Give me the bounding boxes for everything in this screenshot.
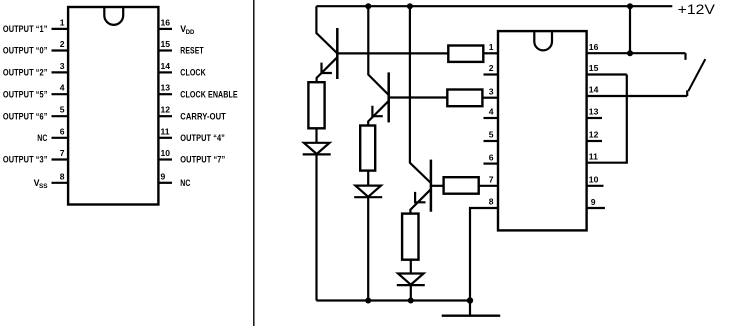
svg-text:16: 16 bbox=[589, 42, 599, 52]
resistor R6 (Q3 emitter) bbox=[402, 214, 418, 260]
IC2 pin 5 stub bbox=[484, 140, 499, 142]
IC2 pin 16 wire to switch bbox=[587, 52, 686, 54]
svg-text:2: 2 bbox=[60, 39, 65, 49]
transistor Q2 base bar bbox=[387, 72, 390, 122]
svg-text:8: 8 bbox=[489, 197, 494, 207]
svg-text:CARRY-OUT: CARRY-OUT bbox=[180, 111, 226, 121]
svg-text:5: 5 bbox=[60, 105, 65, 115]
svg-text:3: 3 bbox=[60, 61, 65, 71]
svg-text:11: 11 bbox=[161, 126, 170, 136]
wire Q3 base to R3 bbox=[431, 185, 444, 187]
IC2 pin 4 stub bbox=[484, 117, 499, 119]
+12V rail bbox=[316, 5, 672, 7]
wire R5 to D2 bbox=[367, 171, 369, 186]
junction dot rail/ground bbox=[467, 297, 473, 303]
transistor Q1 collector wire bbox=[316, 6, 337, 53]
IC2 pin 8 wire to ground bbox=[470, 208, 498, 301]
switch contact pin14 side bbox=[686, 90, 688, 96]
svg-text:12: 12 bbox=[589, 130, 599, 140]
svg-text:12: 12 bbox=[161, 105, 171, 115]
svg-text:16: 16 bbox=[161, 17, 171, 27]
ground symbol bbox=[469, 301, 471, 316]
divider line bbox=[253, 0, 255, 326]
svg-text:9: 9 bbox=[161, 171, 166, 181]
resistor R1 (pin 1) bbox=[448, 46, 483, 62]
IC1 pinout body (left diagram, CD4022) bbox=[68, 7, 158, 205]
resistor R3 (pin 7) bbox=[444, 177, 479, 194]
resistor R4 (Q1 emitter) bbox=[308, 82, 324, 128]
switch contact pin16 side bbox=[684, 53, 686, 60]
transistor Q3 emitter bbox=[410, 189, 431, 213]
transistor Q3 base bar bbox=[430, 160, 433, 212]
IC1 pin 14 stub bbox=[158, 71, 172, 73]
IC1 pin 2 stub bbox=[52, 49, 69, 51]
IC2 pin 2 stub bbox=[484, 73, 499, 75]
svg-text:OUTPUT “3”: OUTPUT “3” bbox=[3, 155, 48, 165]
svg-text:11: 11 bbox=[589, 151, 598, 161]
svg-text:15: 15 bbox=[161, 39, 171, 49]
Q3 emitter arrow bbox=[415, 192, 425, 202]
svg-text:SS: SS bbox=[39, 183, 48, 190]
transistor Q1 emitter bbox=[317, 57, 338, 82]
svg-text:OUTPUT “1”: OUTPUT “1” bbox=[3, 24, 48, 34]
IC1 pin 11 stub bbox=[158, 137, 172, 139]
wire +12V drop to pin 16 bbox=[629, 6, 631, 53]
svg-text:13: 13 bbox=[589, 107, 599, 117]
IC2 body (right circuit) bbox=[498, 31, 587, 230]
svg-text:8: 8 bbox=[60, 171, 65, 181]
diode D1 bbox=[304, 143, 330, 154]
svg-text:OUTPUT “6”: OUTPUT “6” bbox=[3, 111, 48, 121]
svg-text:4: 4 bbox=[489, 107, 494, 117]
IC2 pin 15 wire bbox=[587, 73, 627, 75]
wire R3 to pin 7 bbox=[479, 185, 498, 187]
IC2 pin 14 wire to switch bbox=[587, 95, 688, 97]
svg-text:CLOCK: CLOCK bbox=[180, 68, 206, 78]
IC2 pin 10 stub bbox=[587, 185, 604, 187]
bottom rail bbox=[316, 299, 470, 301]
junction dot pin16 wire bbox=[627, 50, 633, 56]
IC1 pin 7 stub bbox=[52, 158, 69, 160]
svg-text:OUTPUT “4”: OUTPUT “4” bbox=[180, 133, 225, 143]
svg-text:4: 4 bbox=[60, 83, 65, 93]
IC2 pin 12 stub bbox=[587, 140, 602, 142]
svg-text:14: 14 bbox=[589, 85, 599, 95]
junction dot rail/Q3 bbox=[407, 3, 413, 9]
resistor R2 (pin 3) bbox=[447, 90, 482, 107]
Q2 emitter arrow bbox=[372, 106, 382, 116]
transistor Q3 collector wire bbox=[410, 6, 431, 183]
wire Q1 base to R1 bbox=[337, 52, 448, 54]
IC1 pin 4 stub bbox=[52, 93, 69, 95]
svg-text:7: 7 bbox=[489, 175, 494, 185]
IC1 pin 16 stub bbox=[158, 28, 172, 30]
wire D1 to bottom rail bbox=[315, 154, 317, 300]
wire D3 to bottom rail bbox=[410, 285, 412, 300]
svg-text:7: 7 bbox=[60, 148, 65, 158]
IC1 pin 13 stub bbox=[158, 93, 172, 95]
svg-text:+12V: +12V bbox=[678, 1, 716, 17]
resistor R5 (Q2 emitter) bbox=[360, 126, 375, 171]
svg-text:2: 2 bbox=[489, 63, 494, 73]
svg-text:RESET: RESET bbox=[180, 46, 204, 56]
svg-text:DD: DD bbox=[186, 29, 195, 36]
svg-text:OUTPUT “7”: OUTPUT “7” bbox=[180, 155, 225, 165]
IC2 pin 6 stub bbox=[484, 163, 499, 165]
junction dot rail/D3 bbox=[408, 298, 414, 304]
svg-text:6: 6 bbox=[60, 126, 65, 136]
IC1 notch bbox=[104, 8, 123, 25]
svg-text:15: 15 bbox=[589, 63, 599, 73]
IC1 pin 5 stub bbox=[52, 115, 69, 117]
switch arm bbox=[688, 59, 705, 91]
svg-text:OUTPUT “2”: OUTPUT “2” bbox=[3, 68, 48, 78]
svg-text:NC: NC bbox=[37, 133, 48, 143]
svg-text:CLOCK ENABLE: CLOCK ENABLE bbox=[180, 89, 237, 99]
svg-text:6: 6 bbox=[489, 152, 494, 162]
IC1 pin 8 stub bbox=[52, 182, 69, 184]
IC1 pin 1 stub bbox=[52, 28, 69, 30]
junction dot rail/Q2 bbox=[365, 3, 371, 9]
IC1 pin 15 stub bbox=[158, 49, 172, 51]
transistor Q2 emitter bbox=[368, 101, 389, 126]
svg-text:10: 10 bbox=[589, 175, 599, 185]
wire D2 to bottom rail bbox=[367, 197, 369, 300]
svg-text:3: 3 bbox=[489, 86, 494, 96]
IC2 pin 13 stub bbox=[587, 117, 602, 119]
diode D3 bbox=[398, 274, 424, 285]
Q1 emitter arrow bbox=[322, 63, 332, 73]
transistor Q1 base bar bbox=[336, 28, 339, 79]
diode D2 bbox=[355, 186, 381, 197]
wire pin15 to pin11 bracket bbox=[587, 75, 627, 163]
svg-text:1: 1 bbox=[489, 42, 494, 52]
transistor Q2 collector wire bbox=[368, 6, 388, 95]
svg-text:9: 9 bbox=[591, 197, 596, 207]
junction dot rail/pin16 drop bbox=[627, 3, 633, 9]
wire R2 to pin 3 bbox=[482, 97, 498, 99]
svg-text:13: 13 bbox=[161, 83, 171, 93]
wire R1 to pin 1 bbox=[483, 52, 498, 54]
IC2 notch bbox=[534, 32, 552, 50]
svg-text:14: 14 bbox=[161, 61, 171, 71]
IC1 pin 12 stub bbox=[158, 115, 172, 117]
svg-text:10: 10 bbox=[161, 148, 171, 158]
svg-text:OUTPUT “0”: OUTPUT “0” bbox=[3, 46, 48, 56]
wire R4 to D1 bbox=[315, 128, 317, 143]
wire R6 to D3 bbox=[410, 260, 412, 274]
svg-text:OUTPUT “5”: OUTPUT “5” bbox=[3, 89, 48, 99]
IC1 pin 10 stub bbox=[158, 158, 172, 160]
svg-text:5: 5 bbox=[489, 130, 494, 140]
IC1 pin 3 stub bbox=[52, 71, 69, 73]
IC2 pin 9 stub bbox=[587, 207, 605, 209]
IC1 pin 9 stub bbox=[158, 182, 172, 184]
svg-text:NC: NC bbox=[180, 178, 191, 188]
wire Q2 base to R2 bbox=[389, 96, 448, 98]
junction dot rail/D2 bbox=[365, 298, 371, 304]
IC1 pin 6 stub bbox=[52, 137, 69, 139]
svg-text:1: 1 bbox=[60, 17, 65, 27]
